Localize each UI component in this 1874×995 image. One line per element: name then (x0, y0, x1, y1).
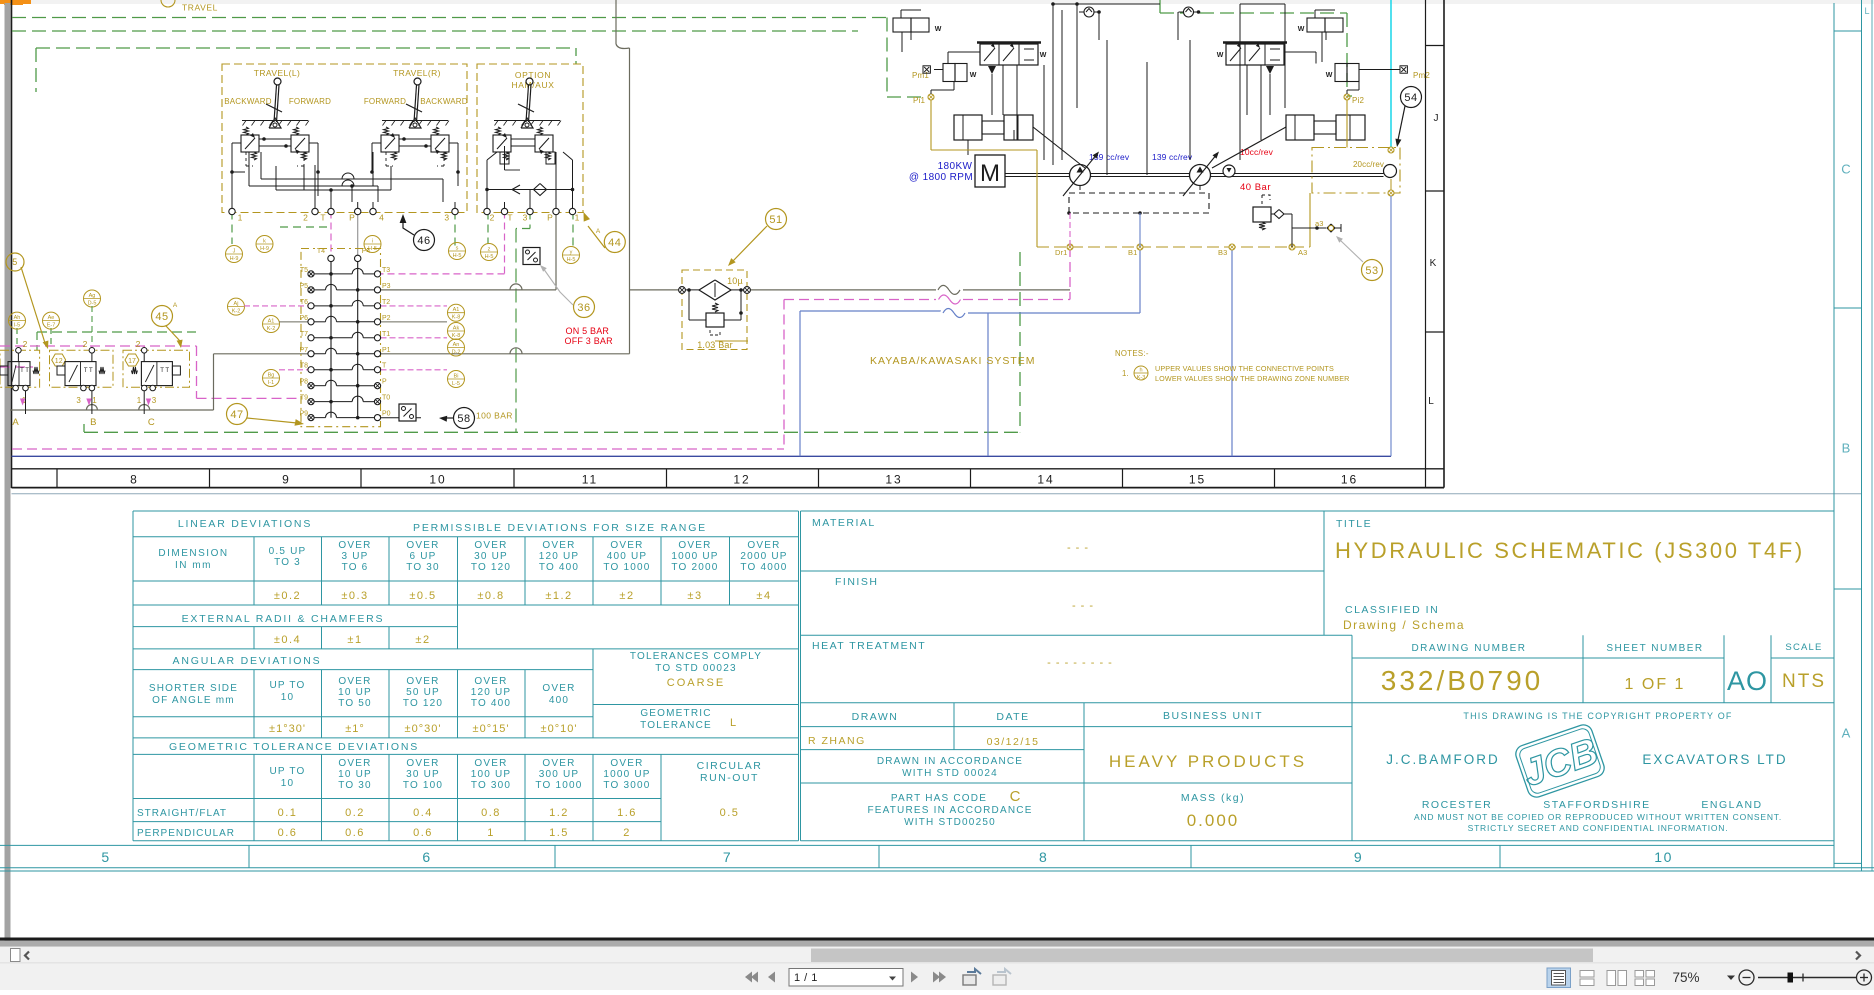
svg-text:11: 11 (582, 473, 598, 487)
svg-text:DRAWING NUMBER: DRAWING NUMBER (1411, 643, 1526, 654)
svg-text:Ag: Ag (89, 293, 96, 299)
svg-text:h: h (1139, 368, 1142, 374)
svg-text:T5: T5 (300, 267, 308, 274)
svg-text:KAYABA/KAWASAKI SYSTEM: KAYABA/KAWASAKI SYSTEM (870, 355, 1036, 367)
svg-text:@ 1800 RPM: @ 1800 RPM (909, 172, 973, 183)
svg-text:W: W (935, 26, 942, 33)
svg-text:0.6: 0.6 (278, 827, 298, 839)
svg-text:T4: T4 (317, 248, 325, 255)
svg-text:120 UP: 120 UP (539, 551, 580, 562)
svg-text:51: 51 (769, 214, 782, 226)
svg-text:10: 10 (281, 692, 295, 703)
svg-text:TO 100: TO 100 (403, 780, 443, 791)
svg-text:1: 1 (487, 827, 495, 839)
svg-text:TO 400: TO 400 (539, 562, 579, 573)
svg-text:P4: P4 (362, 248, 371, 255)
svg-text:T: T (320, 213, 325, 223)
svg-text:OPTION: OPTION (515, 70, 551, 80)
svg-text:1.03 Bar: 1.03 Bar (697, 340, 733, 350)
svg-text:OVER: OVER (338, 758, 371, 769)
svg-text:B: B (90, 417, 96, 428)
svg-text:6 UP: 6 UP (409, 551, 436, 562)
svg-text:T9: T9 (300, 395, 308, 402)
svg-text:M: M (980, 160, 1000, 187)
svg-text:NOTES:-: NOTES:- (1115, 349, 1149, 358)
svg-text:H-9: H-9 (230, 256, 239, 262)
svg-text:1: 1 (575, 213, 580, 223)
svg-text:H-5: H-5 (567, 257, 576, 263)
svg-text:0.5 UP: 0.5 UP (269, 546, 307, 557)
svg-text:A1: A1 (268, 319, 275, 325)
svg-text:±0.5: ±0.5 (409, 590, 436, 602)
svg-text:Ah: Ah (14, 315, 21, 321)
svg-text:An: An (453, 342, 460, 348)
svg-text:30 UP: 30 UP (406, 769, 440, 780)
svg-text:K-2: K-2 (267, 326, 276, 332)
svg-text:DRAWN IN ACCORDANCE: DRAWN IN ACCORDANCE (877, 756, 1023, 767)
svg-text:OVER: OVER (474, 540, 507, 551)
svg-text:TO 2000: TO 2000 (671, 562, 718, 573)
svg-text:J: J (1434, 113, 1439, 124)
svg-text:NTS: NTS (1782, 671, 1826, 692)
svg-text:T3: T3 (382, 267, 390, 274)
svg-text:T6: T6 (300, 299, 308, 306)
svg-text:3 UP: 3 UP (341, 551, 368, 562)
svg-text:1000 UP: 1000 UP (671, 551, 718, 562)
svg-text:16: 16 (1341, 473, 1358, 487)
svg-text:±1°30': ±1°30' (269, 723, 306, 735)
svg-text:Pi1: Pi1 (913, 96, 926, 105)
svg-text:T T: T T (160, 368, 169, 374)
svg-text:30 UP: 30 UP (474, 551, 508, 562)
svg-text:T: T (382, 363, 387, 370)
svg-text:3: 3 (444, 213, 449, 223)
svg-text:139 cc/rev: 139 cc/rev (1152, 152, 1193, 162)
svg-text:2: 2 (623, 827, 631, 839)
svg-text:CIRCULAR: CIRCULAR (697, 760, 763, 772)
svg-text:A: A (596, 228, 601, 235)
svg-text:10µ: 10µ (727, 276, 743, 286)
svg-text:MASS (kg): MASS (kg) (1181, 792, 1245, 804)
svg-text:HEAVY PRODUCTS: HEAVY PRODUCTS (1109, 752, 1307, 771)
svg-text:DRAWN: DRAWN (852, 711, 899, 723)
svg-text:0.6: 0.6 (413, 827, 433, 839)
svg-text:±1.2: ±1.2 (545, 590, 572, 602)
svg-text:P: P (349, 213, 355, 223)
svg-text:OVER: OVER (406, 676, 439, 687)
svg-text:1 OF 1: 1 OF 1 (1625, 676, 1686, 693)
svg-text:TO 4000: TO 4000 (740, 562, 787, 573)
svg-text:44: 44 (608, 237, 621, 249)
svg-text:H-5: H-5 (453, 253, 462, 259)
svg-text:0.5: 0.5 (720, 807, 740, 819)
svg-text:TO 120: TO 120 (471, 562, 511, 573)
svg-text:53: 53 (1365, 265, 1378, 277)
svg-text:9: 9 (282, 473, 291, 487)
svg-text:4: 4 (379, 213, 384, 223)
svg-text:0.8: 0.8 (481, 807, 501, 819)
svg-text:OVER: OVER (338, 540, 371, 551)
svg-text:SCALE: SCALE (1785, 642, 1822, 653)
svg-text:0.6: 0.6 (345, 827, 365, 839)
svg-text:K-2: K-2 (232, 309, 241, 315)
svg-text:L: L (730, 717, 736, 729)
svg-text:ON 5 BAR: ON 5 BAR (566, 326, 610, 336)
svg-text:C: C (1010, 788, 1021, 805)
svg-text:H-5: H-5 (485, 254, 494, 260)
svg-text:DATE: DATE (996, 711, 1029, 723)
svg-text:T T: T T (20, 368, 29, 374)
svg-text:FINISH: FINISH (835, 576, 878, 588)
svg-text:±0°15': ±0°15' (473, 723, 510, 735)
svg-text:K: K (1430, 258, 1437, 269)
svg-text:ANGULAR DEVIATIONS: ANGULAR DEVIATIONS (173, 655, 322, 667)
svg-text:10: 10 (281, 778, 295, 789)
svg-text:AND MUST NOT BE COPIED OR REPR: AND MUST NOT BE COPIED OR REPRODUCED WIT… (1414, 812, 1782, 822)
svg-text:FORWARD: FORWARD (289, 97, 331, 106)
svg-text:1 / 1: 1 / 1 (794, 972, 818, 984)
svg-text:A: A (173, 302, 178, 309)
svg-text:P8: P8 (299, 379, 308, 386)
svg-text:E-7: E-7 (47, 323, 56, 329)
svg-text:2000 UP: 2000 UP (740, 551, 787, 562)
svg-text:8: 8 (130, 473, 139, 487)
svg-text:1.6: 1.6 (617, 807, 637, 819)
svg-text:P9: P9 (299, 411, 308, 418)
svg-text:GEOMETRIC TOLERANCE DEVIATIONS: GEOMETRIC TOLERANCE DEVIATIONS (169, 741, 419, 753)
svg-text:100 UP: 100 UP (471, 769, 512, 780)
svg-text:PART HAS CODE: PART HAS CODE (891, 793, 987, 804)
svg-text:120 UP: 120 UP (471, 687, 512, 698)
svg-text:BACKWARD: BACKWARD (420, 97, 468, 106)
svg-text:OVER: OVER (338, 676, 371, 687)
svg-text:UP TO: UP TO (269, 766, 305, 777)
svg-text:WITH STD 00024: WITH STD 00024 (902, 768, 998, 779)
svg-text:- - - - - - - -: - - - - - - - - (1047, 657, 1113, 669)
svg-text:K-3: K-3 (1137, 375, 1146, 381)
svg-text:Ae: Ae (48, 315, 55, 321)
svg-text:W: W (1040, 52, 1047, 59)
svg-text:TO 300: TO 300 (471, 780, 511, 791)
svg-text:1: 1 (137, 396, 142, 405)
svg-text:Drawing / Schema: Drawing / Schema (1343, 618, 1465, 632)
svg-text:R ZHANG: R ZHANG (808, 735, 866, 747)
svg-text:T0: T0 (382, 395, 390, 402)
svg-text:PERMISSIBLE DEVIATIONS FOR SIZ: PERMISSIBLE DEVIATIONS FOR SIZE RANGE (413, 522, 707, 534)
svg-text:±1: ±1 (347, 634, 362, 646)
svg-text:0.000: 0.000 (1187, 811, 1240, 830)
svg-text:Dr1: Dr1 (1055, 248, 1067, 257)
svg-text:2: 2 (490, 213, 495, 223)
svg-text:T T: T T (84, 368, 93, 374)
svg-text:332/B0790: 332/B0790 (1381, 665, 1543, 696)
svg-text:OVER: OVER (610, 540, 643, 551)
svg-text:LINEAR DEVIATIONS: LINEAR DEVIATIONS (178, 518, 312, 530)
svg-text:Bg: Bg (268, 373, 275, 379)
svg-text:OVER: OVER (474, 758, 507, 769)
svg-text:z: z (488, 247, 491, 253)
svg-text:100 BAR: 100 BAR (476, 411, 513, 421)
svg-text:±1°: ±1° (345, 723, 365, 735)
svg-text:3: 3 (523, 213, 528, 223)
svg-text:D-5: D-5 (88, 301, 97, 307)
svg-text:i: i (372, 239, 373, 245)
svg-text:A: A (1842, 726, 1851, 741)
svg-text:5: 5 (12, 257, 18, 267)
svg-text:OVER: OVER (747, 540, 780, 551)
svg-text:7: 7 (723, 849, 732, 865)
svg-text:Aj: Aj (234, 301, 239, 307)
svg-text:SHORTER SIDE: SHORTER SIDE (149, 683, 238, 694)
svg-text:17: 17 (128, 358, 136, 365)
svg-text:OVER: OVER (406, 540, 439, 551)
svg-text:HEAT TREATMENT: HEAT TREATMENT (812, 640, 926, 652)
svg-text:OF ANGLE mm: OF ANGLE mm (152, 695, 235, 706)
svg-text:FORWARD: FORWARD (364, 97, 406, 106)
svg-text:A: A (12, 417, 19, 428)
svg-text:2: 2 (83, 339, 88, 349)
svg-text:I-1: I-1 (268, 380, 274, 386)
svg-text:2: 2 (303, 213, 308, 223)
svg-text:BACKWARD: BACKWARD (224, 97, 272, 106)
svg-text:EXCAVATORS LTD: EXCAVATORS LTD (1642, 752, 1787, 767)
svg-text:20cc/rev: 20cc/rev (1353, 160, 1384, 169)
svg-text:OVER: OVER (542, 758, 575, 769)
svg-text:L: L (1864, 6, 1869, 16)
svg-text:ENGLAND: ENGLAND (1701, 799, 1762, 811)
svg-text:J.C.BAMFORD: J.C.BAMFORD (1386, 752, 1500, 767)
svg-text:0.4: 0.4 (413, 807, 433, 819)
svg-text:- - -: - - - (1072, 600, 1094, 612)
svg-text:1000 UP: 1000 UP (603, 769, 650, 780)
svg-text:40 Bar: 40 Bar (1240, 182, 1271, 193)
svg-text:1.: 1. (1122, 369, 1129, 378)
svg-text:W: W (970, 72, 977, 79)
svg-text:13: 13 (885, 473, 902, 487)
svg-text:W: W (1298, 26, 1305, 33)
svg-text:Pi2: Pi2 (1352, 96, 1365, 105)
svg-text:8: 8 (1039, 849, 1048, 865)
svg-text:75%: 75% (1672, 970, 1699, 985)
svg-text:IN mm: IN mm (175, 560, 212, 571)
svg-text:A1: A1 (453, 307, 460, 313)
svg-text:TOLERANCES COMPLY: TOLERANCES COMPLY (630, 651, 762, 662)
svg-text:12: 12 (55, 358, 63, 365)
svg-text:TO 30: TO 30 (338, 780, 372, 791)
svg-text:MATERIAL: MATERIAL (812, 517, 876, 529)
svg-text:C: C (1841, 162, 1850, 177)
svg-text:TO 1000: TO 1000 (603, 562, 650, 573)
svg-text:THIS DRAWING IS THE COPYRIGHT: THIS DRAWING IS THE COPYRIGHT PROPERTY O… (1463, 711, 1732, 721)
svg-text:180KW: 180KW (938, 161, 973, 172)
svg-text:0.1: 0.1 (278, 807, 298, 819)
svg-text:J: J (233, 249, 236, 255)
svg-text:54: 54 (1404, 92, 1417, 104)
svg-text:CLASSIFIED IN: CLASSIFIED IN (1345, 604, 1439, 616)
svg-text:TO 3: TO 3 (274, 557, 301, 568)
svg-text:LOWER VALUES SHOW THE DRAWING: LOWER VALUES SHOW THE DRAWING ZONE NUMBE… (1155, 374, 1350, 383)
svg-text:B1: B1 (1128, 248, 1137, 257)
svg-text:L: L (1428, 396, 1434, 407)
svg-text:10: 10 (429, 473, 446, 487)
svg-text:STRAIGHT/FLAT: STRAIGHT/FLAT (137, 808, 227, 819)
svg-text:PERPENDICULAR: PERPENDICULAR (137, 828, 235, 839)
svg-text:P6: P6 (299, 315, 308, 322)
svg-text:T8: T8 (300, 363, 308, 370)
svg-text:T1: T1 (382, 331, 390, 338)
svg-text:D-2: D-2 (452, 350, 461, 356)
svg-text:P: P (547, 213, 553, 223)
svg-text:OVER: OVER (610, 758, 643, 769)
svg-text:RUN-OUT: RUN-OUT (700, 772, 759, 784)
svg-text:T: T (507, 213, 512, 223)
svg-text:TO 400: TO 400 (471, 698, 511, 709)
svg-text:15: 15 (1189, 473, 1206, 487)
svg-text:BUSINESS UNIT: BUSINESS UNIT (1163, 710, 1263, 722)
svg-text:DIMENSION: DIMENSION (158, 548, 228, 559)
svg-text:TOLERANCE: TOLERANCE (640, 720, 712, 731)
svg-text:P1: P1 (382, 347, 391, 354)
svg-text:B: B (1842, 441, 1851, 456)
svg-text:GEOMETRIC: GEOMETRIC (640, 708, 711, 719)
svg-text:46: 46 (417, 235, 430, 247)
svg-text:k: k (263, 239, 266, 245)
svg-text:±2: ±2 (619, 590, 634, 602)
svg-text:1: 1 (92, 396, 97, 405)
svg-text:±0.3: ±0.3 (341, 590, 368, 602)
svg-text:±3: ±3 (687, 590, 702, 602)
svg-text:400: 400 (549, 695, 569, 706)
svg-text:1: 1 (238, 213, 243, 223)
svg-text:C: C (148, 417, 155, 428)
svg-text:6: 6 (422, 849, 431, 865)
svg-text:±4: ±4 (756, 590, 771, 602)
svg-text:OVER: OVER (542, 683, 575, 694)
svg-text:W: W (1217, 52, 1224, 59)
svg-text:10 UP: 10 UP (338, 769, 372, 780)
svg-text:±0.8: ±0.8 (477, 590, 504, 602)
svg-text:±2: ±2 (415, 634, 430, 646)
svg-text:Bi: Bi (454, 374, 459, 380)
svg-text:3: 3 (152, 396, 157, 405)
svg-text:COARSE: COARSE (667, 677, 725, 689)
svg-text:14: 14 (1037, 473, 1054, 487)
svg-text:Pm2: Pm2 (1413, 71, 1430, 80)
svg-text:TO 6: TO 6 (342, 562, 369, 573)
svg-text:L-5: L-5 (452, 381, 460, 387)
svg-text:±0.2: ±0.2 (274, 590, 301, 602)
svg-text:K-8: K-8 (452, 333, 461, 339)
svg-text:FEATURES IN ACCORDANCE: FEATURES IN ACCORDANCE (867, 805, 1032, 816)
svg-text:I-5: I-5 (14, 323, 20, 329)
svg-text:Pm1: Pm1 (912, 71, 929, 80)
svg-text:STRICTLY SECRET AND CONFIDENTI: STRICTLY SECRET AND CONFIDENTIAL INFORMA… (1468, 823, 1729, 833)
svg-text:K-8: K-8 (452, 315, 461, 321)
svg-text:- - -: - - - (1067, 542, 1089, 554)
svg-text:W: W (1326, 72, 1333, 79)
svg-text:ROCESTER: ROCESTER (1422, 799, 1492, 811)
svg-text:P7: P7 (299, 347, 308, 354)
svg-text:P0: P0 (382, 411, 391, 418)
svg-text:P: P (382, 379, 387, 386)
svg-text:3: 3 (76, 396, 81, 405)
svg-text:±0°30': ±0°30' (405, 723, 442, 735)
svg-text:OVER: OVER (542, 540, 575, 551)
svg-text:TO 30: TO 30 (406, 562, 440, 573)
svg-text:T7: T7 (300, 331, 308, 338)
svg-text:H-9: H-9 (260, 246, 269, 252)
svg-text:T2: T2 (382, 299, 390, 306)
svg-text:STAFFORDSHIRE: STAFFORDSHIRE (1543, 799, 1650, 811)
svg-text:1.2: 1.2 (549, 807, 569, 819)
svg-text:OVER: OVER (474, 676, 507, 687)
svg-text:SHEET NUMBER: SHEET NUMBER (1606, 643, 1703, 654)
svg-text:2: 2 (136, 339, 141, 349)
svg-text:WITH STD00250: WITH STD00250 (904, 817, 996, 828)
svg-text:36: 36 (577, 302, 590, 314)
svg-text:±0.4: ±0.4 (274, 634, 301, 646)
svg-text:±0°10': ±0°10' (541, 723, 578, 735)
svg-text:HYDRAULIC SCHEMATIC (JS300 T4F: HYDRAULIC SCHEMATIC (JS300 T4F) (1335, 538, 1805, 563)
svg-text:TRAVEL(L): TRAVEL(L) (254, 68, 300, 78)
svg-text:TO 120: TO 120 (403, 698, 443, 709)
svg-text:TO 50: TO 50 (338, 698, 372, 709)
svg-text:y: y (570, 250, 573, 256)
svg-text:UPPER VALUES SHOW THE CONNECTI: UPPER VALUES SHOW THE CONNECTIVE POINTS (1155, 364, 1334, 373)
svg-text:03/12/15: 03/12/15 (987, 736, 1040, 748)
svg-text:s: s (456, 246, 459, 252)
svg-text:2: 2 (23, 339, 28, 349)
svg-text:TITLE: TITLE (1336, 518, 1372, 530)
svg-text:OVER: OVER (406, 758, 439, 769)
svg-text:300 UP: 300 UP (539, 769, 580, 780)
svg-text:10cc/rev: 10cc/rev (1240, 147, 1274, 157)
svg-text:TRAVEL(R): TRAVEL(R) (393, 68, 441, 78)
svg-text:B3: B3 (1218, 248, 1227, 257)
svg-text:P5: P5 (299, 283, 308, 290)
svg-text:1.5: 1.5 (549, 827, 569, 839)
svg-text:A3: A3 (1298, 248, 1307, 257)
svg-text:45: 45 (155, 311, 168, 323)
svg-text:TO STD 00023: TO STD 00023 (655, 663, 736, 674)
svg-text:0.2: 0.2 (345, 807, 365, 819)
svg-text:58: 58 (457, 413, 470, 425)
svg-text:12: 12 (733, 473, 750, 487)
svg-text:5: 5 (101, 849, 110, 865)
svg-text:400 UP: 400 UP (607, 551, 648, 562)
svg-text:EXTERNAL RADII & CHAMFERS: EXTERNAL RADII & CHAMFERS (182, 613, 385, 625)
svg-text:47: 47 (230, 409, 243, 421)
svg-text:TRAVEL: TRAVEL (182, 3, 218, 13)
svg-text:OFF 3 BAR: OFF 3 BAR (565, 336, 614, 346)
svg-text:P3: P3 (382, 283, 391, 290)
svg-text:UP TO: UP TO (269, 680, 305, 691)
svg-text:TO 3000: TO 3000 (603, 780, 650, 791)
svg-text:50 UP: 50 UP (406, 687, 440, 698)
svg-text:10 UP: 10 UP (338, 687, 372, 698)
svg-text:10: 10 (1654, 849, 1673, 865)
svg-text:TO 1000: TO 1000 (535, 780, 582, 791)
svg-text:9: 9 (1354, 849, 1363, 865)
svg-text:P2: P2 (382, 315, 391, 322)
svg-text:AO: AO (1727, 666, 1768, 696)
svg-text:Ak: Ak (453, 326, 460, 332)
svg-text:OVER: OVER (678, 540, 711, 551)
